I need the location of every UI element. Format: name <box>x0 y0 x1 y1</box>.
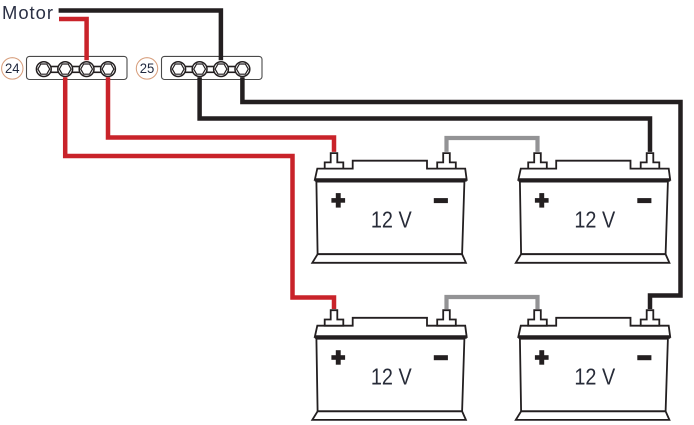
terminal 24:2 <box>58 62 73 77</box>
wire black: block 25 terminal 4 to B4 negative <box>242 77 680 309</box>
wire red: block 24 terminal 2 to B3 positive <box>65 77 334 309</box>
battery B2 12V top-right <box>516 153 670 263</box>
terminal 25:4 <box>235 62 250 77</box>
terminal block 25 <box>162 56 263 79</box>
bus link 25:3-4 <box>228 67 236 73</box>
battery B1 12V top-left <box>312 153 466 263</box>
terminal block 24 <box>27 56 128 79</box>
terminal 25:3 <box>214 62 229 77</box>
terminal 24:4 <box>101 62 116 77</box>
battery B4 12V bottom-right <box>516 310 670 420</box>
wire gray: B1 negative to B2 positive jumper <box>447 138 538 152</box>
callout label 24 <box>2 58 23 79</box>
battery B3 12V bottom-left <box>312 310 466 420</box>
wire red: motor to block 24 terminal 3 <box>59 19 87 60</box>
bus link 25:1-2 <box>185 67 193 73</box>
wire black: motor to block 25 terminal 3 <box>59 11 221 61</box>
callout label 25 <box>136 58 157 79</box>
terminal 24:1 <box>36 62 51 77</box>
svg-text:Motor: Motor <box>2 2 54 23</box>
wire black: block 25 terminal 2 to B2 negative <box>200 77 650 152</box>
svg-text:24: 24 <box>5 60 20 76</box>
terminal 25:2 <box>192 62 207 77</box>
wire gray: B3 negative to B4 positive jumper <box>447 297 538 309</box>
bus link 24:3-4 <box>93 67 101 73</box>
bus link 25:2-3 <box>206 67 214 73</box>
terminal 24:3 <box>79 62 94 77</box>
terminal 25:1 <box>171 62 186 77</box>
wire red: block 24 terminal 4 to B1 positive <box>108 77 334 152</box>
svg-text:25: 25 <box>140 60 155 76</box>
bus link 24:1-2 <box>51 67 59 73</box>
bus link 24:2-3 <box>72 67 80 73</box>
